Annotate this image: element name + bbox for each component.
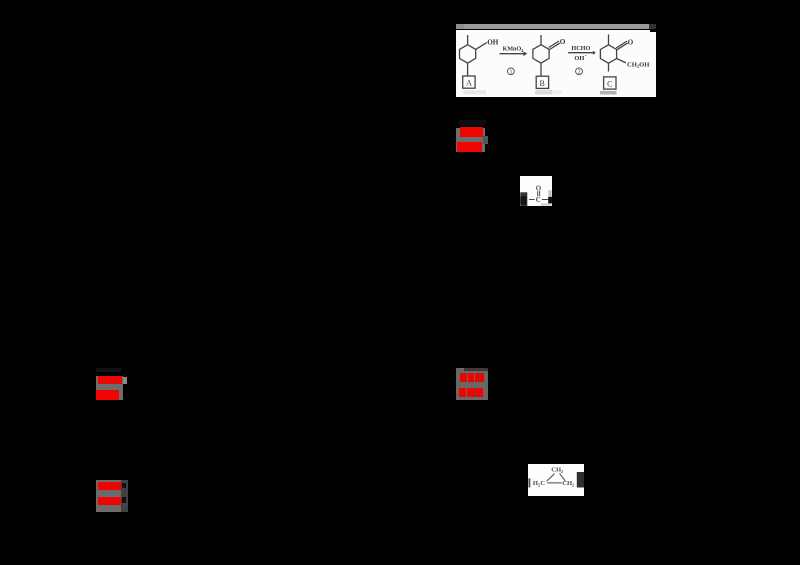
svg-text:C: C (607, 79, 612, 88)
svg-text:C: C (540, 480, 545, 487)
svg-text:HCHO: HCHO (571, 45, 590, 52)
svg-text:OH: OH (487, 38, 499, 46)
svg-text:O: O (560, 38, 566, 46)
svg-text:2: 2 (578, 69, 581, 75)
svg-text:OH−: OH− (574, 54, 587, 61)
svg-text:O: O (628, 38, 634, 46)
svg-text:A: A (466, 78, 472, 87)
svg-text:CH2OH: CH2OH (627, 61, 649, 68)
svg-text:1: 1 (509, 69, 512, 75)
svg-text:O: O (536, 184, 542, 192)
svg-text:KMnO4: KMnO4 (503, 46, 525, 52)
svg-text:CH: CH (551, 466, 561, 473)
svg-text:2: 2 (572, 482, 575, 487)
svg-text:C: C (536, 196, 541, 204)
svg-text:CH: CH (562, 480, 572, 487)
svg-text:2: 2 (561, 469, 564, 474)
svg-text:B: B (539, 79, 544, 88)
